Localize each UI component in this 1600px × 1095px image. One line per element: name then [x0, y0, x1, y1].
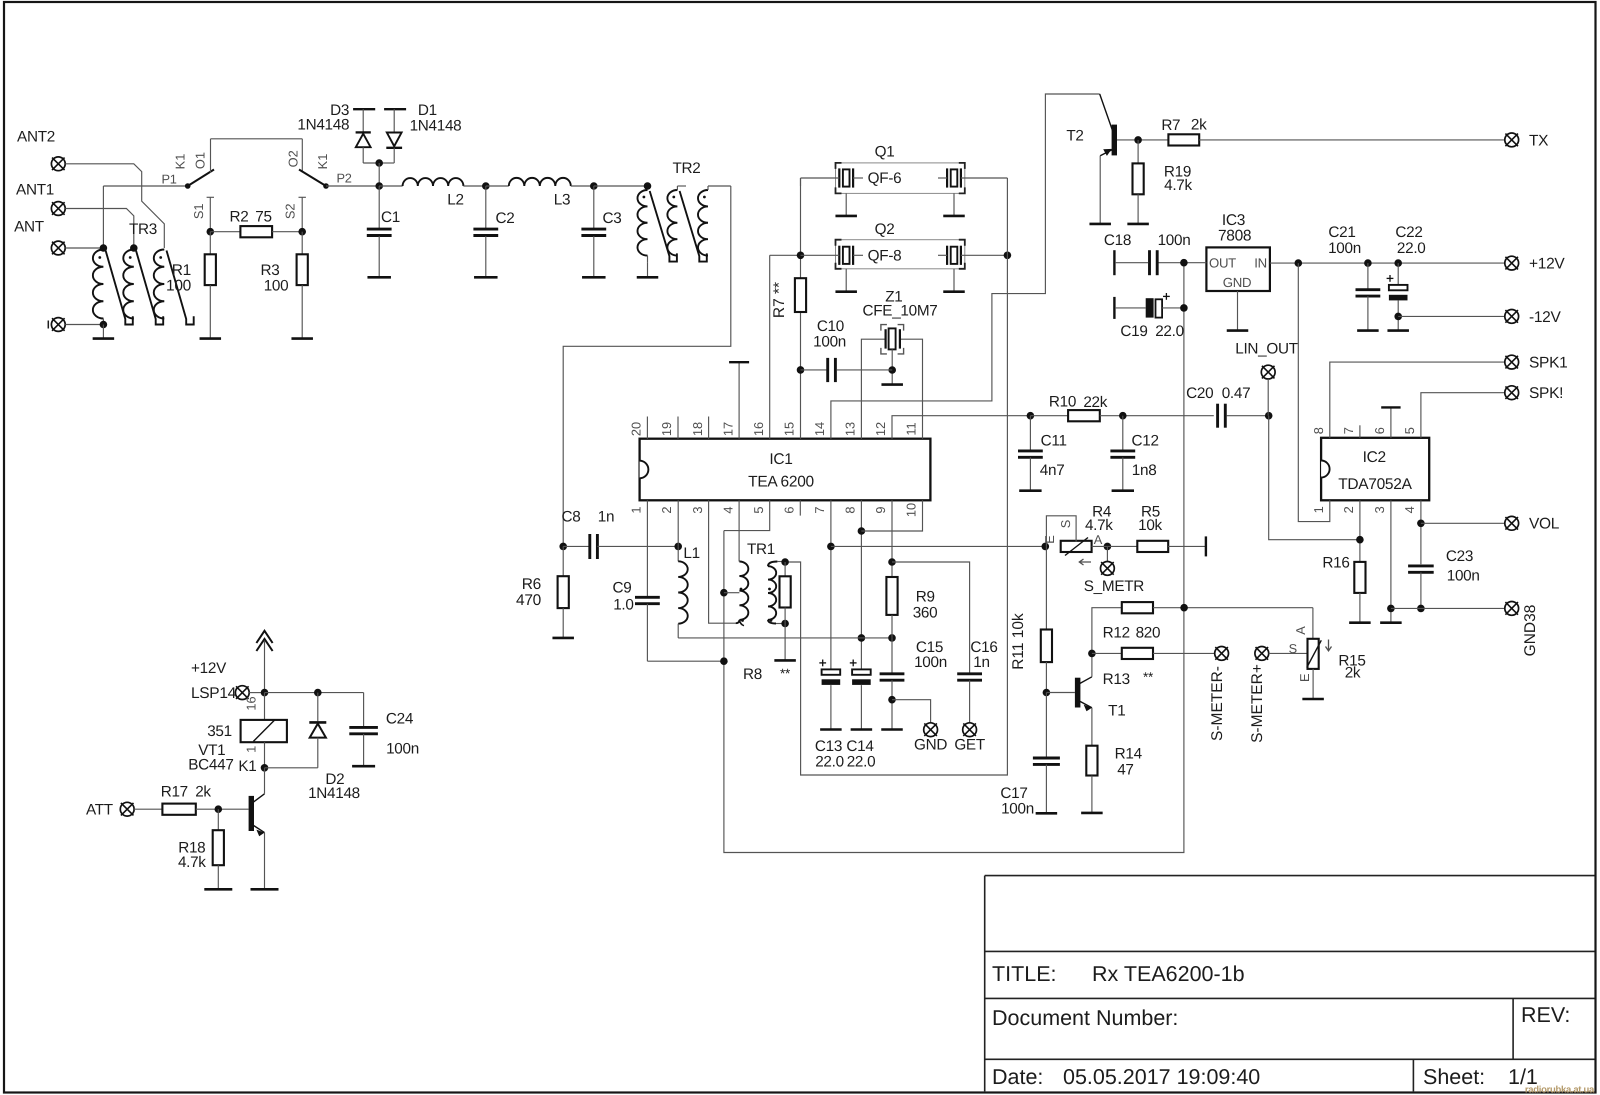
svg-text:R2: R2: [230, 209, 249, 226]
label S-METER-: [1209, 666, 1226, 741]
terminal VOL: [1505, 516, 1519, 530]
svg-text:CFE_10M7: CFE_10M7: [863, 303, 938, 320]
label C21 value 100n: [1328, 240, 1361, 257]
label C16 value 1n: [973, 654, 989, 671]
terminal S_METR: [1101, 562, 1115, 576]
label C17: [1000, 785, 1027, 802]
node TR1 tap: [720, 589, 728, 597]
IC1 pin 20 stub: [646, 417, 648, 439]
svg-text:S: S: [1289, 641, 1297, 656]
label D2 value 1N4148: [308, 785, 360, 802]
transformer TR3 winding 3: [154, 250, 165, 319]
svg-text:R6: R6: [522, 576, 541, 593]
label C14: [846, 738, 874, 755]
wire TR1 w2 top: [777, 561, 785, 563]
wire S1-R2: [210, 231, 240, 233]
wire P2 to C1 node: [326, 185, 379, 187]
open bar C12: [1112, 489, 1134, 492]
capacitor C15: [880, 674, 905, 730]
svg-text:22k: 22k: [1083, 394, 1107, 411]
capacitor C1: [367, 186, 392, 236]
label D3: [330, 102, 349, 119]
IC1 pin 16 label: [751, 422, 766, 436]
wire TR1 tap: [724, 592, 740, 594]
wire T1 collector: [1091, 653, 1093, 676]
wire VT1 collector: [264, 768, 266, 794]
label R14 value 47: [1117, 761, 1133, 778]
terminal SPK1: [1505, 355, 1519, 369]
terminal -12V: [1505, 310, 1519, 324]
label +12V: [1529, 256, 1565, 273]
capacitor C11: [1018, 416, 1043, 491]
wire T2 base: [1117, 139, 1168, 141]
svg-text:1n: 1n: [598, 509, 614, 526]
stub S2: [299, 197, 306, 231]
node Q2 left: [797, 252, 805, 260]
svg-text:C22: C22: [1395, 224, 1422, 241]
label C18 value 100n: [1158, 232, 1191, 249]
node C21: [1364, 259, 1372, 267]
open bar C11: [1019, 489, 1041, 492]
label C11 value 4n7: [1040, 462, 1065, 479]
label relay pin 16: [244, 696, 259, 710]
label R13: [1103, 671, 1130, 688]
node relay top: [261, 689, 269, 697]
IC2 pin 7 label: [1341, 427, 1356, 434]
IC1 pin 3 label: [690, 506, 705, 513]
label R4 S: [1058, 520, 1073, 529]
svg-text:radiorubka.at.ua: radiorubka.at.ua: [1525, 1085, 1595, 1095]
op-amp IC1 box: [640, 439, 931, 501]
node C2: [482, 182, 490, 190]
svg-text:19: 19: [659, 422, 674, 436]
IC1 pin 1 label: [629, 506, 644, 513]
svg-text:4: 4: [720, 506, 735, 513]
wire IC3 OUT: [1159, 262, 1207, 264]
IC2 pin 3 label: [1372, 506, 1387, 513]
switch K1 right pivot P2: [323, 183, 329, 189]
node S1: [207, 228, 215, 236]
svg-text:R12: R12: [1103, 624, 1130, 641]
node R9 top: [888, 558, 896, 566]
node R4 A: [1104, 543, 1112, 551]
svg-text:S1: S1: [191, 203, 206, 219]
title block Date: [992, 1065, 1043, 1089]
label D2: [325, 771, 344, 788]
node pin1 junction: [720, 657, 728, 665]
node T1 base: [1043, 689, 1051, 697]
wire IC1 pin 12 to R10 line: [892, 416, 1030, 439]
IC2 pin7 stub: [1359, 425, 1361, 438]
wire C3-TR2: [594, 185, 648, 187]
label C1: [381, 209, 400, 226]
svg-text:Document Number:: Document Number:: [992, 1006, 1178, 1030]
label R6: [522, 576, 541, 593]
IC1 pin 17 stub with open bar: [729, 362, 749, 439]
svg-text:6: 6: [1372, 427, 1387, 434]
wire C2-L3: [486, 185, 509, 187]
svg-text:C19: C19: [1120, 323, 1147, 340]
svg-text:GND38: GND38: [1522, 605, 1539, 657]
label R8 stars: [780, 666, 791, 681]
wire R2-S2: [272, 231, 302, 233]
capacitor C2: [473, 186, 498, 277]
terminal S-METER+: [1255, 647, 1269, 661]
IC1 pin 20 label: [629, 422, 644, 436]
wire R5 right: [1168, 545, 1206, 547]
resistor R1: [205, 232, 216, 339]
svg-text:7: 7: [812, 506, 827, 513]
capacitor C10: [801, 358, 893, 382]
IC1 pin 6 label: [782, 506, 797, 513]
wire R7 to TX: [1199, 139, 1505, 141]
terminal ANT-gnd: [48, 318, 65, 332]
ground R3: [291, 337, 313, 340]
svg-text:SPK1: SPK1: [1529, 355, 1567, 372]
resistor R17: [162, 804, 195, 815]
svg-text:1: 1: [1311, 506, 1326, 513]
transistor T2: [1100, 94, 1117, 156]
svg-text:4.7k: 4.7k: [1085, 517, 1113, 534]
svg-text:0.47: 0.47: [1222, 385, 1251, 402]
svg-text:L1: L1: [683, 545, 699, 562]
ground TR2: [637, 262, 659, 277]
svg-text:GET: GET: [954, 737, 985, 754]
transformer TR3 winding 1: [93, 250, 104, 325]
svg-text:22.0: 22.0: [847, 754, 876, 771]
wire bottom rail: [678, 637, 892, 639]
label R7: [1161, 117, 1180, 134]
wire Q1 inner stubs: [853, 177, 947, 179]
potentiometer R4: [1061, 538, 1092, 556]
svg-text:R3: R3: [261, 262, 280, 279]
label OUT: [1209, 256, 1236, 271]
wire GND38: [1391, 607, 1505, 609]
ground R16: [1349, 621, 1371, 624]
wire L2-C2: [463, 185, 485, 187]
wire IC1 pin 14 to T2 collector: [831, 94, 1100, 439]
svg-text:17: 17: [720, 422, 735, 436]
relay coil K1: [241, 693, 287, 768]
node -12V: [1394, 313, 1402, 321]
label R3 value 100: [264, 278, 289, 295]
wire R9 node to C16: [892, 562, 970, 673]
resistor R16: [1354, 562, 1365, 623]
label R10: [1049, 393, 1076, 410]
label C14 value 22.0: [847, 754, 876, 771]
svg-text:10: 10: [904, 503, 919, 517]
svg-text:TR2: TR2: [673, 160, 701, 177]
IC2 pin 6 label: [1372, 427, 1387, 434]
ground R15: [1302, 669, 1324, 699]
inductor L1: [678, 546, 688, 638]
svg-text:100n: 100n: [1447, 567, 1480, 584]
svg-text:4: 4: [1402, 506, 1417, 513]
wire arrow down: [264, 641, 266, 693]
terminal ANT1: [16, 182, 65, 216]
label R4 A: [1094, 532, 1103, 547]
label S2: [283, 203, 298, 219]
capacitor C20: [1218, 404, 1269, 428]
label P1: [161, 171, 176, 186]
svg-text:-12V: -12V: [1529, 309, 1562, 326]
node TR2 primary top: [644, 182, 652, 190]
node R8 top: [781, 558, 789, 566]
inductor L3: [509, 178, 571, 186]
svg-text:351: 351: [207, 723, 232, 740]
svg-text:Sheet:: Sheet:: [1423, 1065, 1485, 1089]
label VOL: [1529, 516, 1560, 533]
capacitor C16: [957, 674, 982, 723]
IC1 pin 19 label: [659, 422, 674, 436]
svg-text:C18: C18: [1104, 232, 1131, 249]
node +8V: [1180, 259, 1188, 267]
wire ANT1 to TR3 winding 2: [65, 209, 134, 249]
label GND-IC3: [1223, 275, 1251, 290]
svg-text:16: 16: [751, 422, 766, 436]
svg-text:Q1: Q1: [875, 144, 895, 161]
svg-text:2k: 2k: [195, 783, 211, 800]
wire IC1 pin 15 / R7 branch: [800, 178, 802, 439]
IC1 pin 11 label: [904, 422, 919, 435]
TR3 core slant 2: [136, 251, 163, 325]
IC2 pin 4 label: [1402, 506, 1417, 513]
resistor R14: [1086, 746, 1097, 813]
capacitor C9 on pin 1: [635, 500, 724, 661]
svg-text:100n: 100n: [1158, 232, 1191, 249]
svg-text:T1: T1: [1108, 703, 1125, 720]
svg-text:Rx TEA6200-1b: Rx TEA6200-1b: [1092, 962, 1245, 986]
ceramic filter Z1: [881, 325, 904, 354]
label C3: [603, 210, 622, 227]
ground R14: [1081, 812, 1103, 815]
node T1 collector / R13: [1088, 650, 1096, 658]
node C3: [590, 182, 598, 190]
svg-text:8: 8: [1311, 427, 1326, 434]
ground R1: [200, 337, 222, 340]
svg-text:2: 2: [1341, 506, 1356, 513]
svg-text:1: 1: [629, 506, 644, 513]
capacitor C21: [1356, 263, 1381, 331]
wire TR1 w2 bottom: [776, 623, 785, 625]
svg-text:Date:: Date:: [992, 1065, 1043, 1089]
audio amp IC2 box: [1321, 438, 1429, 501]
svg-text:3: 3: [1372, 506, 1387, 513]
label O1: [192, 152, 207, 169]
node C20 right: [1265, 412, 1273, 420]
label C13: [815, 738, 842, 755]
label GET: [954, 737, 985, 754]
label LIN_OUT: [1235, 340, 1298, 357]
capacitor C3: [581, 186, 606, 277]
svg-text:ANT: ANT: [14, 219, 44, 236]
label R9 value 360: [913, 605, 938, 622]
node C22: [1394, 259, 1402, 267]
svg-text:100n: 100n: [386, 741, 419, 758]
node Q2 right: [1004, 252, 1012, 260]
svg-text:1: 1: [244, 746, 259, 753]
label S-METER+: [1249, 664, 1266, 743]
node Z1 bottom: [888, 366, 896, 374]
IC1 pin 14 label: [812, 422, 827, 436]
title block date value: [1063, 1065, 1260, 1089]
wire L3-C3: [571, 185, 594, 187]
resistor R5: [1137, 541, 1168, 552]
node T2 base: [1134, 136, 1142, 144]
node D2 top: [314, 689, 322, 697]
capacitor C12: [1110, 416, 1135, 491]
svg-text:GND: GND: [914, 737, 947, 754]
label GND38: [1522, 605, 1539, 657]
wire R12 left: [1092, 608, 1122, 654]
terminal GET: [963, 723, 977, 737]
open bar C22: [1387, 329, 1409, 332]
transformer TR3 label: [129, 221, 157, 238]
svg-text:820: 820: [1136, 624, 1161, 641]
IC2 pin 2 label: [1341, 506, 1356, 513]
wire IC2 pin3: [1390, 500, 1392, 622]
IC1 pin 13 label: [843, 422, 858, 436]
capacitor C14 electrolytic: [850, 660, 871, 730]
title block frame: [985, 876, 1595, 1092]
ground Z1: [881, 383, 903, 386]
label C23: [1446, 548, 1473, 565]
ground Q1 left: [835, 193, 857, 216]
transformer TR1 label: [747, 541, 775, 558]
label R16: [1322, 555, 1349, 572]
label IN: [1254, 256, 1267, 271]
title block REV: [1521, 1003, 1570, 1027]
IC1 pin 10 label: [904, 503, 919, 517]
svg-text:C1: C1: [381, 209, 400, 226]
IC1 pin 2 label: [659, 506, 674, 513]
svg-text:T2: T2: [1066, 128, 1083, 145]
transformer TR2 winding 2: [667, 186, 686, 256]
label C8: [562, 509, 581, 526]
label VT1: [198, 742, 225, 759]
label R4 value 4.7k: [1085, 517, 1113, 534]
svg-text:K1: K1: [315, 154, 330, 170]
svg-text:R8: R8: [743, 666, 762, 683]
label R12 value 820: [1136, 624, 1161, 641]
resistor R19: [1133, 140, 1144, 224]
svg-text:360: 360: [913, 605, 938, 622]
svg-text:IC2: IC2: [1363, 449, 1386, 466]
IC2 pin 5 label: [1402, 427, 1417, 434]
label R19: [1164, 164, 1191, 181]
switch K1 left pivot P1: [185, 183, 191, 189]
inductor L2: [403, 178, 464, 186]
ground Q2 left: [835, 269, 857, 292]
terminal +12V: [1505, 256, 1519, 270]
wire LIN_OUT: [1267, 379, 1269, 416]
svg-text:C14: C14: [846, 738, 874, 755]
wire R9 to C15: [891, 638, 893, 673]
node R10-C12: [1119, 412, 1127, 420]
svg-text:470: 470: [516, 592, 542, 609]
svg-text:LSP14: LSP14: [191, 685, 237, 702]
node C23 bottom: [1417, 605, 1425, 613]
svg-text:O2: O2: [286, 150, 301, 167]
wire IC1 pin 11 to Z1 right: [900, 339, 923, 439]
title block TITLE: [992, 962, 1057, 986]
svg-text:S2: S2: [283, 203, 298, 219]
wire +12V to IC2 pin1: [1298, 263, 1330, 521]
svg-text:C11: C11: [1041, 432, 1067, 449]
label R15 A: [1293, 626, 1308, 635]
label R11 10k: [1010, 613, 1027, 670]
open bar C21: [1357, 329, 1379, 332]
svg-text:C17: C17: [1000, 785, 1027, 802]
label K1 left: [173, 154, 188, 170]
label R7 **: [771, 282, 788, 318]
label C15 value 100n: [914, 654, 947, 671]
transistor VT1: [249, 794, 265, 836]
label C24: [386, 710, 414, 727]
ground Q1 right: [943, 193, 965, 216]
svg-text:22.0: 22.0: [815, 754, 844, 771]
label R4name: [1092, 504, 1112, 521]
label P2: [336, 171, 351, 186]
capacitor C19 electrolytic: [1114, 293, 1184, 319]
TR3 core slant 1: [106, 251, 133, 325]
svg-text:C12: C12: [1132, 432, 1159, 449]
wire Q2 inner stubs: [853, 254, 947, 256]
svg-text:75: 75: [255, 209, 271, 226]
node TR3 W1 top: [100, 244, 108, 252]
label R12: [1103, 624, 1130, 641]
svg-text:1N4148: 1N4148: [410, 118, 462, 135]
svg-text:BC447: BC447: [188, 757, 233, 774]
label R15 value 2k: [1345, 664, 1361, 681]
open bar C14: [851, 728, 873, 731]
node pin8 bottom rail: [858, 634, 866, 642]
label C8 value 1n: [598, 509, 614, 526]
title block name Rx TEA6200-1b: [1092, 962, 1245, 986]
node R8 bottom: [781, 620, 789, 628]
svg-text:4.7k: 4.7k: [1164, 177, 1192, 194]
IC1 pin 18 stub: [708, 417, 710, 439]
label +12V relay: [191, 660, 227, 677]
label R17: [161, 784, 188, 801]
wire pin7 vertical: [830, 500, 832, 669]
resistor R9: [886, 577, 897, 638]
IC1 pin 9 label: [873, 506, 888, 513]
label Z1 value CFE_10M7: [863, 303, 938, 320]
svg-text:1.0: 1.0: [613, 597, 633, 614]
voltage regulator IC3 box: [1206, 247, 1270, 291]
svg-text:2k: 2k: [1191, 117, 1207, 134]
wire S_METR: [1106, 546, 1108, 561]
node TR3 W1 bottom: [100, 321, 108, 329]
wire S-METER+ to R15 wiper: [1269, 652, 1308, 654]
label -12V: [1529, 309, 1562, 326]
label D1: [418, 102, 437, 119]
label C10 value 100n: [813, 333, 846, 350]
node R18 top: [215, 805, 223, 813]
wire R4-R5: [1092, 545, 1138, 547]
label T1: [1108, 703, 1125, 720]
wire T1 emitter to R14: [1091, 708, 1093, 746]
open bar C15: [881, 728, 903, 731]
label S1: [191, 203, 206, 219]
svg-text:**: **: [1143, 670, 1154, 685]
crystal filter Q2 label: [875, 221, 895, 238]
terminal ATT: [120, 802, 134, 816]
svg-text:2: 2: [659, 506, 674, 513]
svg-text:11: 11: [904, 422, 919, 435]
capacitor C22 electrolytic: [1387, 263, 1408, 331]
